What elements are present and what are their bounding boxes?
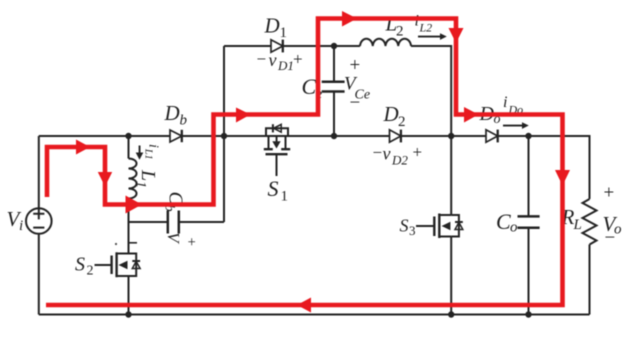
wire L1 bottom to S2 drain (128, 199, 130, 254)
capacitor Ce (322, 82, 345, 92)
wire Co lower stub (528, 228, 530, 315)
svg-text:L: L (573, 217, 582, 233)
node at Co top (525, 133, 531, 139)
svg-text:1: 1 (281, 189, 289, 205)
svg-text:−: − (350, 93, 361, 114)
wire RL bottom stub (589, 245, 591, 315)
label S3 (400, 216, 416, 239)
svg-text:L2: L2 (419, 21, 433, 35)
node at L1 top (125, 133, 131, 139)
node at center junction (221, 133, 227, 139)
svg-text:2: 2 (396, 24, 404, 40)
svg-text:i: i (19, 218, 23, 234)
wire L1 top stub (128, 136, 130, 159)
svg-text:b: b (180, 113, 188, 129)
inductor L2 (360, 39, 411, 46)
current arrow iDo (503, 122, 529, 129)
node at Ce bottom (331, 133, 337, 139)
current arrow iL1 (136, 146, 144, 160)
red arrow down at top-right (449, 28, 464, 43)
wire S3 source down (450, 237, 452, 315)
svg-text:v: v (269, 50, 277, 70)
red arrow right on Vi top segment (76, 140, 90, 155)
svg-text:−: − (605, 228, 616, 249)
svg-text:C: C (302, 74, 317, 99)
inductor L1 (129, 159, 137, 199)
svg-text:i: i (146, 144, 161, 148)
node at S3 bottom (448, 311, 454, 317)
svg-text:L: L (137, 169, 159, 181)
resistor RL (583, 199, 597, 245)
wire L2 to top-right corner and down to S3 (411, 46, 451, 215)
wire center vertical x224 (223, 46, 225, 222)
svg-text:2: 2 (398, 114, 406, 130)
wire Ce upper stub (333, 46, 335, 82)
svg-text:S: S (268, 176, 279, 201)
wire bottom rail (39, 314, 590, 316)
label D1 (264, 14, 288, 42)
diode D2 (390, 130, 401, 143)
svg-text:v: v (383, 144, 391, 164)
S3 channel arrow (442, 222, 451, 230)
wire top-left rail (39, 135, 170, 137)
svg-text:+: + (604, 183, 615, 204)
svg-text:L1: L1 (143, 148, 154, 160)
svg-text:D1: D1 (277, 58, 294, 73)
svg-text:1: 1 (133, 181, 148, 188)
label + Vo - (603, 183, 623, 249)
wire D2 to node (401, 135, 451, 137)
label + VCe - (344, 55, 370, 114)
transistor S3 (416, 214, 463, 239)
node at Ce top (331, 43, 337, 49)
svg-text:+: + (413, 143, 423, 162)
label vCb (rotated glyphs) (164, 232, 183, 245)
label S2 (75, 254, 94, 279)
node at S2 bottom (125, 311, 131, 317)
red arrow right at L1 bottom (126, 196, 142, 214)
svg-text:C: C (496, 209, 511, 234)
capacitor Cb (flying) (168, 211, 179, 234)
node at Co bottom (525, 311, 531, 317)
wire Ce lower stub (333, 92, 335, 136)
svg-text:D: D (264, 14, 280, 38)
transistor S1 (horizontal MOSFET) (264, 124, 290, 176)
label iDo (503, 94, 523, 117)
S1 channel arrow (272, 137, 280, 149)
label D2 (383, 102, 406, 130)
wire Co upper stub (528, 136, 530, 216)
red arrow right on top segment (342, 11, 357, 27)
red current path (46, 19, 563, 306)
S2 channel arrow (119, 261, 128, 269)
label Do (479, 103, 501, 127)
small dash mark (129, 242, 137, 244)
diode Db (170, 130, 182, 142)
svg-text:D2: D2 (391, 153, 408, 168)
wire left rail lower (38, 234, 40, 315)
label S1 (268, 176, 289, 205)
wire flying-cap right (180, 221, 224, 223)
svg-text:D: D (383, 102, 399, 126)
label -vD1+ (257, 50, 303, 74)
svg-text:i: i (415, 13, 419, 30)
svg-text:o: o (510, 220, 518, 236)
wire top rail left of D1 (224, 45, 271, 47)
label RL (561, 205, 582, 233)
red arrow down to RL (555, 170, 570, 186)
red arrow left on bottom segment (297, 298, 311, 313)
wire left rail upper (38, 136, 40, 208)
wire Co node to right rail corner (529, 136, 590, 199)
wire Db cathode to junction (182, 135, 224, 137)
svg-text:−: − (373, 143, 383, 162)
svg-text:S: S (400, 216, 409, 236)
svg-text:S: S (75, 254, 85, 276)
wire top rail D1 to Ce node (283, 45, 334, 47)
label Db (164, 101, 188, 129)
svg-text:1: 1 (280, 25, 288, 41)
label Ce (302, 74, 323, 103)
svg-text:−: − (257, 50, 267, 69)
label L1 (rotated) (133, 169, 159, 188)
svg-text:3: 3 (409, 223, 416, 238)
svg-text:i: i (503, 94, 507, 111)
label -vD2+ (373, 143, 423, 168)
capacitor Co (518, 216, 540, 227)
svg-text:2: 2 (87, 264, 94, 279)
wire middle rail left of D2 (224, 135, 390, 137)
label iL1 (rotated) (143, 144, 161, 160)
voltage source Vi (26, 208, 52, 234)
svg-text:+: + (183, 238, 199, 246)
svg-text:D: D (164, 101, 180, 125)
wire node to Do (451, 135, 486, 137)
wire S2 source down (128, 276, 130, 315)
label Vi (7, 207, 24, 234)
label Cb (rotated) (162, 192, 187, 212)
transistor S2 (95, 252, 141, 277)
label iL2 (415, 13, 433, 35)
svg-text:V: V (164, 232, 183, 245)
svg-text:+: + (293, 50, 303, 69)
red arrow right above S1 (236, 108, 251, 123)
red arrow right toward Do (464, 107, 479, 123)
label Co (496, 209, 518, 236)
label L2 (385, 12, 404, 40)
node at D2-Do junction (448, 133, 454, 139)
red arrow down into L1 node (98, 172, 112, 187)
diode D1 (271, 40, 283, 53)
current arrow iL2 (418, 33, 447, 40)
wire Do to Co node (498, 135, 529, 137)
wire flying-cap left (129, 221, 168, 223)
diode Do (486, 130, 498, 143)
wire Ce node to L2 (334, 45, 360, 47)
